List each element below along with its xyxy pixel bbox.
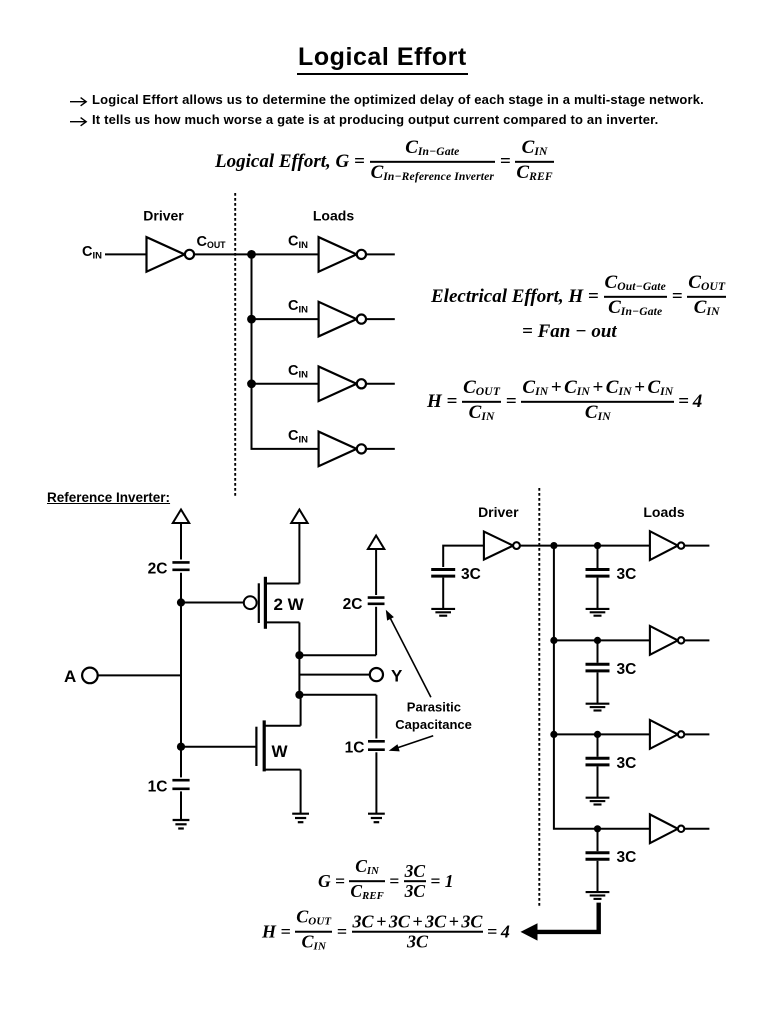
svg-text:A: A: [64, 667, 76, 686]
capacitor 1C input: [172, 780, 189, 789]
node junction row2: [247, 315, 256, 324]
svg-text:3C: 3C: [617, 566, 637, 583]
wire load 4 output: [366, 448, 395, 450]
capacitor 3C driver: [431, 570, 455, 577]
svg-text:3C: 3C: [617, 755, 637, 772]
inverter load row1: [650, 531, 684, 560]
svg-text:2C: 2C: [343, 596, 363, 613]
node output lower: [295, 691, 303, 699]
wire cap stem row2: [597, 640, 599, 662]
node bus row1: [550, 542, 557, 549]
power VDD arrow pmos: [291, 510, 307, 524]
arrow annotation to 1C parasitic: [389, 736, 434, 752]
wire load 3 output: [366, 383, 395, 385]
terminal Y: [370, 668, 383, 681]
node junction row3: [247, 379, 256, 388]
svg-text:Loads: Loads: [313, 208, 354, 224]
svg-text:CIN: CIN: [288, 363, 308, 381]
wire cap ground row3: [597, 766, 599, 797]
arrow annotation to 2C parasitic: [386, 610, 431, 698]
svg-text:CIN: CIN: [288, 298, 308, 316]
capacitor 1C parasitic: [368, 741, 385, 749]
wire to parasitic 1C: [299, 694, 376, 696]
wire row1: [554, 545, 650, 547]
svg-text:CIN: CIN: [288, 234, 308, 252]
node output upper: [295, 651, 303, 659]
wire nmos drain: [300, 695, 302, 726]
wire parasitic 1C upper: [375, 695, 377, 739]
inverter driver bottom: [484, 532, 520, 560]
bullet line 2: [92, 112, 658, 127]
wire parasitic 2C lower: [375, 607, 377, 655]
svg-text:1C: 1C: [148, 779, 168, 796]
label Reference Inverter: [47, 490, 170, 505]
wire driver output: [194, 253, 251, 255]
wire parasitic upper: [375, 549, 377, 595]
stage boundary dashed line top: [234, 193, 236, 497]
wire pmos drain: [298, 622, 300, 655]
transistor Q2 NMOS: [256, 720, 300, 771]
ground row2: [586, 704, 610, 711]
title Logical Effort: [297, 43, 468, 75]
svg-text:2C: 2C: [148, 561, 168, 578]
terminal A: [82, 668, 98, 684]
ground row3: [586, 798, 610, 805]
wire driver cap to ground: [442, 578, 444, 609]
ground parasitic branch: [368, 814, 385, 823]
capacitor 2C input: [172, 562, 189, 569]
ground input branch: [173, 820, 190, 829]
svg-text:COUT: COUT: [197, 234, 227, 250]
svg-text:Capacitance: Capacitance: [395, 717, 472, 732]
stage boundary dashed line bottom: [538, 488, 540, 908]
wire load 1 output: [366, 253, 395, 255]
wire input branch lower: [180, 747, 182, 778]
svg-text:1C: 1C: [345, 740, 365, 757]
power VDD arrow input branch: [173, 510, 189, 524]
wire load 2 input: [252, 318, 319, 320]
node cap row2: [594, 637, 601, 644]
wire output vertical: [298, 655, 300, 695]
equation logical effort G: [215, 140, 554, 184]
wire driver input: [105, 253, 147, 255]
inverter load 1: [319, 237, 366, 272]
feedback arrow thick: [521, 903, 599, 941]
svg-text:CIN: CIN: [82, 244, 102, 262]
wire cap stem row4: [597, 829, 599, 851]
node cap row3: [594, 731, 601, 738]
svg-text:3C: 3C: [617, 661, 637, 678]
inverter load row4: [650, 814, 684, 843]
node nmos gate junction: [177, 743, 185, 751]
bullet arrow 2: [70, 118, 86, 126]
wire pmos source to vdd: [298, 523, 300, 584]
wire bus bottom: [554, 546, 650, 829]
svg-text:Driver: Driver: [478, 504, 519, 520]
ground driver: [431, 609, 455, 616]
wire input branch upper: [180, 523, 182, 560]
svg-text:Loads: Loads: [643, 504, 684, 520]
wire load 1 input: [252, 253, 319, 255]
wire cap stem row3: [597, 734, 599, 756]
svg-text:3C: 3C: [461, 566, 481, 583]
wire cap ground row4: [597, 861, 599, 892]
wire input A: [98, 674, 181, 676]
ground row1: [586, 609, 610, 616]
node bus row3: [550, 731, 557, 738]
capacitor 3C row3: [586, 758, 610, 765]
equation G = 1: [318, 859, 454, 903]
wire cap stem row1: [597, 546, 599, 568]
wire row2: [554, 639, 650, 641]
node pmos gate junction: [177, 598, 185, 606]
wire to parasitic 2C: [299, 654, 376, 656]
wire out row3: [684, 733, 709, 735]
inverter U1 driver: [147, 237, 195, 272]
wire out row2: [684, 639, 709, 641]
svg-text:W: W: [272, 742, 289, 761]
wire driver input corner: [443, 546, 484, 567]
equation H = 4: [427, 380, 702, 424]
capacitor 3C row4: [586, 853, 610, 860]
wire out row4: [684, 828, 709, 830]
wire cap ground row1: [597, 578, 599, 609]
node cap row4: [594, 825, 601, 832]
wire parasitic 1C lower: [375, 752, 377, 813]
inverter load 2: [319, 302, 366, 337]
wire to input ground: [180, 791, 182, 819]
inverter load row2: [650, 626, 684, 655]
wire output Y: [299, 674, 369, 676]
power VDD arrow parasitic: [368, 536, 384, 550]
wire out row1: [684, 545, 709, 547]
node junction row1: [247, 250, 256, 259]
wire pmos gate: [181, 602, 244, 604]
wire load 3 input: [252, 383, 319, 385]
svg-text:CIN: CIN: [288, 428, 308, 446]
wire input bus: [180, 573, 182, 747]
capacitor 3C row1: [586, 570, 610, 577]
node cap row1: [594, 542, 601, 549]
capacitor 2C parasitic: [368, 598, 385, 604]
bullet line 1: [92, 92, 704, 107]
svg-text:3C: 3C: [617, 849, 637, 866]
transistor Q1 PMOS: [244, 577, 300, 629]
equation fan-out: [522, 322, 617, 342]
wire cap ground row2: [597, 672, 599, 703]
equation electrical effort H: [431, 275, 726, 319]
capacitor 3C row2: [586, 664, 610, 671]
wire load 2 output: [366, 318, 395, 320]
wire nmos gate: [181, 746, 256, 748]
svg-text:2 W: 2 W: [274, 595, 305, 614]
wire nmos source: [300, 770, 302, 814]
svg-text:Driver: Driver: [143, 208, 184, 224]
equation H = 4 bottom: [262, 910, 510, 955]
inverter load 4: [319, 432, 366, 467]
svg-text:Parasitic: Parasitic: [407, 700, 461, 715]
svg-text:Y: Y: [391, 667, 403, 686]
wire driver output: [520, 545, 554, 547]
inverter load row3: [650, 720, 684, 749]
ground row4: [586, 892, 610, 899]
wire row3: [554, 733, 650, 735]
bullet arrow 1: [70, 98, 86, 106]
node bus row2: [550, 637, 557, 644]
inverter load 3: [319, 367, 366, 402]
ground nmos: [292, 814, 309, 823]
wire load bus vertical: [252, 254, 319, 449]
